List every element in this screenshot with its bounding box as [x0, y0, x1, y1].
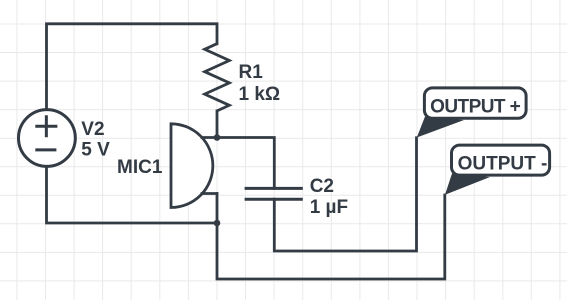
minus sign [35, 148, 56, 151]
capacitor C2 [245, 188, 303, 199]
wire MIC1 bottom pin down to bottom rail and OUTPUT- riser [217, 194, 445, 280]
svg-text:1 µF: 1 µF [310, 197, 348, 218]
OUTPUT + flag box [424, 88, 526, 118]
MIC1 pin 2 stub [202, 192, 217, 195]
OUTPUT - flag box [452, 145, 550, 175]
wire V2 bottom to bottom-left rail [47, 166, 218, 223]
svg-text:1 kΩ: 1 kΩ [239, 84, 281, 105]
wire R1 bottom lead to node A [216, 111, 219, 138]
plus sign [35, 115, 57, 137]
svg-text:MIC1: MIC1 [117, 157, 163, 178]
svg-text:5 V: 5 V [81, 140, 110, 161]
node A junction dot (R1/MIC1/C2) [214, 134, 221, 141]
svg-text:V2: V2 [81, 119, 104, 140]
microphone MIC1 [171, 124, 217, 208]
node B junction dot (bottom rail) [214, 220, 221, 227]
OUTPUT - flag tail [445, 174, 490, 195]
svg-text:C2: C2 [310, 176, 334, 197]
svg-text:OUTPUT -: OUTPUT - [458, 154, 548, 175]
wire top rail V2 to R1 [47, 24, 218, 110]
svg-text:R1: R1 [239, 62, 264, 83]
resistor R1 [205, 44, 230, 111]
wire C2 bottom to OUTPUT+ riser [274, 138, 416, 251]
MIC1 pin 1 stub [202, 136, 217, 139]
wire node A to C2 top [217, 138, 274, 189]
svg-text:OUTPUT +: OUTPUT + [430, 96, 521, 117]
OUTPUT + flag tail [417, 117, 464, 138]
voltage source V2 [19, 110, 76, 167]
